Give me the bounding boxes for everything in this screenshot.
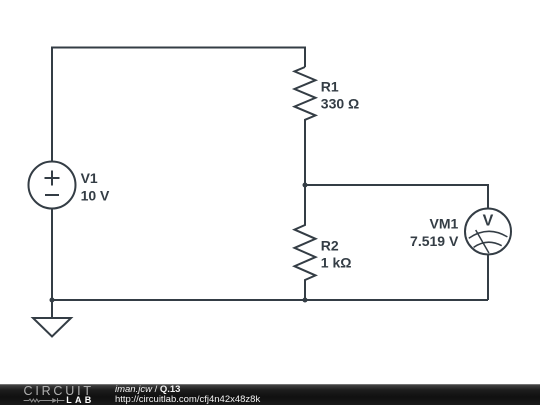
svg-text:V1: V1 xyxy=(81,170,98,186)
svg-text:7.519 V: 7.519 V xyxy=(410,233,459,249)
svg-text:http://circuitlab.com/cfj4n42x: http://circuitlab.com/cfj4n42x48z8k xyxy=(115,394,260,405)
svg-text:1 kΩ: 1 kΩ xyxy=(321,255,352,271)
svg-text:R2: R2 xyxy=(321,237,339,253)
svg-text:R1: R1 xyxy=(321,78,339,94)
svg-text:LAB: LAB xyxy=(66,395,94,405)
svg-text:330 Ω: 330 Ω xyxy=(321,96,359,112)
svg-text:VM1: VM1 xyxy=(430,215,459,231)
svg-text:10 V: 10 V xyxy=(81,187,110,203)
svg-text:V: V xyxy=(483,213,494,230)
